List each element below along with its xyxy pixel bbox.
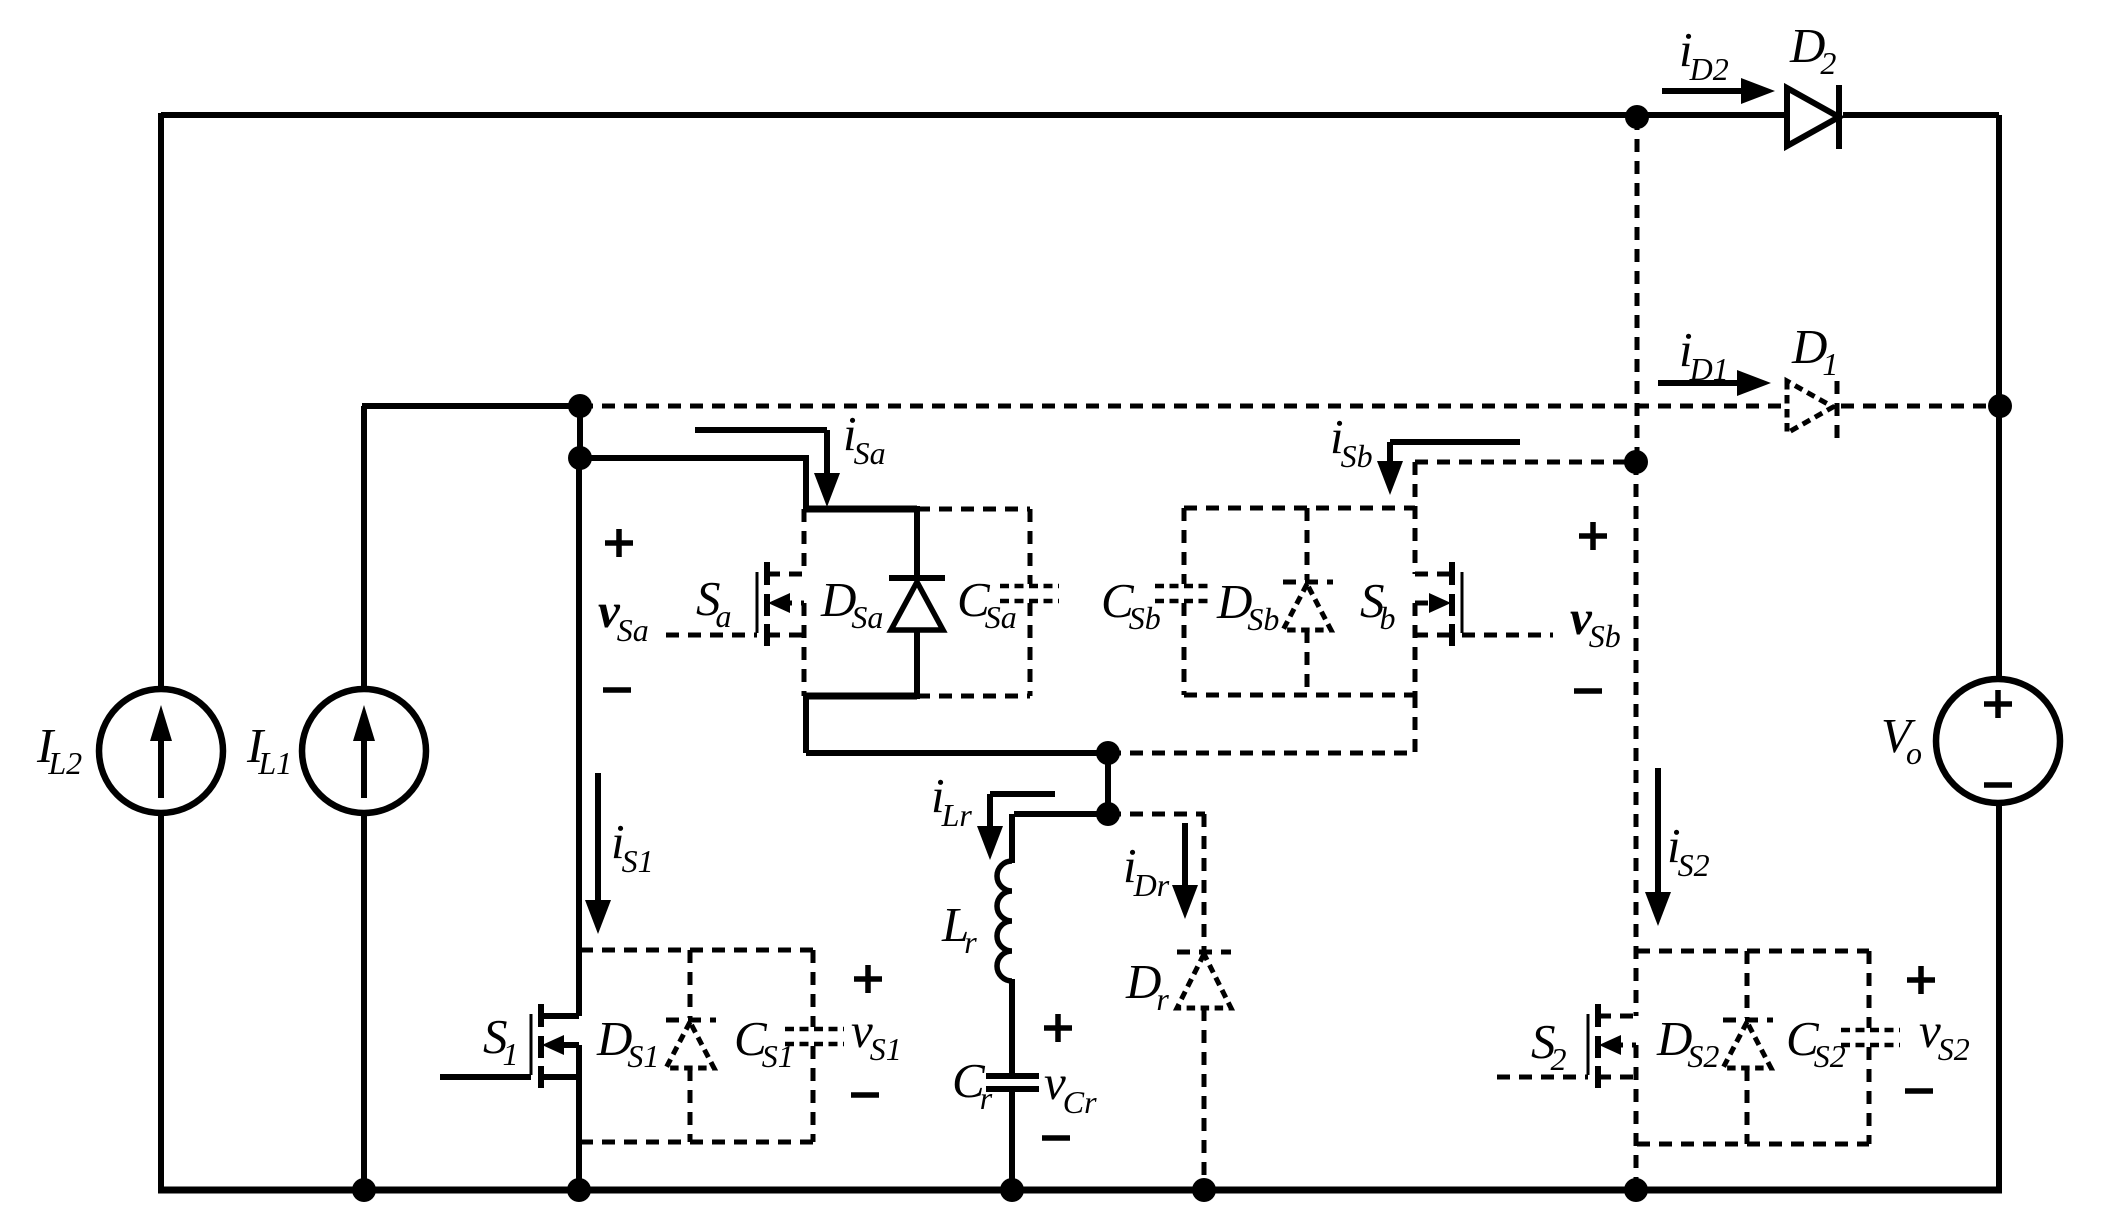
wire dashed D1 net [580,404,2000,409]
label v_S2 [1919,1003,1970,1067]
svg-text:CS1: CS1 [734,1011,794,1074]
diode D1 (dashed) [1787,381,1837,439]
voltage source V_o [1936,679,2060,803]
svg-text:Sa: Sa [696,571,732,634]
svg-text:iS2: iS2 [1667,818,1710,883]
label v_S2 plus [1907,966,1935,994]
diode D_Sa [889,506,945,699]
current source I_L1 [302,689,426,813]
svg-text:Sb: Sb [1360,573,1396,636]
node I_L1 bottom [352,1178,376,1202]
wire S1 drain [576,458,582,1016]
wire bottom rail [158,1187,2002,1194]
label I_L1 [246,718,292,781]
capacitor C_S1 [785,1029,844,1044]
inductor L_r [997,861,1012,1076]
current arrow i_D1 [1658,370,1771,396]
svg-text:CSa: CSa [957,572,1017,635]
svg-text:IL1: IL1 [246,718,292,781]
capacitor C_r [986,1076,1039,1190]
svg-text:iD2: iD2 [1679,22,1729,87]
node junction left lower [568,446,592,470]
label C_S1 [734,1011,794,1074]
label i_D2 [1679,22,1729,87]
transistor S1 (mosfet) [440,1004,579,1190]
node C_r bottom [1000,1178,1024,1202]
svg-text:DSb: DSb [1216,574,1279,637]
current arrow i_Sb [1377,442,1520,495]
current arrow i_Sa [695,430,840,507]
label D1 [1791,319,1838,382]
node S_b/S2 bus junction [1624,450,1648,474]
capacitor C_Sb box [1155,508,1415,695]
current arrow i_Lr [977,794,1055,860]
node A upper [1096,741,1120,765]
label i_Sa [843,406,886,471]
label D_S1 [596,1011,659,1074]
current source I_L2 [99,689,223,813]
label v_Cr [1044,1055,1097,1120]
label V_o [1881,708,1922,771]
label S_b [1360,573,1396,636]
node on top rail [1625,105,1649,129]
wire dashed bus from top node [1635,117,1640,462]
svg-text:DS1: DS1 [596,1011,659,1074]
label i_S2 [1667,818,1710,883]
label D_r [1125,954,1169,1017]
label v_S1 plus [854,965,882,993]
svg-text:Lr: Lr [941,897,977,960]
label I_L2 [36,718,82,781]
diode D2 [1787,85,1839,149]
node D_r bottom [1192,1178,1216,1202]
wire left rail (into I_L2) [158,113,164,1190]
svg-text:CSb: CSb [1101,573,1161,636]
label C_Sa [957,572,1017,635]
svg-text:iSb: iSb [1330,409,1373,474]
transistor S_a (switch, dashed) [666,509,804,696]
label S_a [696,571,732,634]
current arrow i_S2 [1645,768,1671,926]
label v_Sa [598,583,649,648]
svg-text:iLr: iLr [931,768,972,833]
wire S_b bottom link [1108,695,1415,753]
label i_Lr [931,768,972,833]
label D_S2 [1656,1011,1719,1074]
node S2 bottom [1624,1178,1648,1202]
svg-text:iSa: iSa [843,406,886,471]
label v_S1 [851,1003,902,1067]
diode D_Sb (dashed) [1283,508,1333,695]
label S2 [1531,1014,1567,1077]
wire S_a top rail [803,506,917,513]
svg-text:Dr: Dr [1125,954,1169,1017]
wire S_a left drop [806,693,1108,753]
wire S_a feed [580,455,806,509]
svg-text:vS2: vS2 [1919,1003,1970,1067]
diode D_S2 (dashed) [1723,951,1773,1144]
svg-text:iS1: iS1 [611,814,654,879]
node junction left upper [568,394,592,418]
current arrow i_D2 [1662,78,1775,104]
svg-text:IL2: IL2 [36,718,82,781]
svg-text:vSa: vSa [598,583,649,648]
wire node A link [1105,753,1111,814]
svg-text:vCr: vCr [1044,1055,1097,1120]
wire S2 drain (dashed) [1634,462,1639,1016]
label v_Sb [1570,590,1621,654]
snubber box S1 [580,950,813,1142]
wire top rail [161,112,1999,118]
label C_r [952,1053,993,1116]
label D_Sb [1216,574,1279,637]
capacitor C_Sa box [917,509,1059,696]
transistor S_b (switch, dashed) [1415,562,1553,646]
svg-text:CS2: CS2 [1786,1011,1846,1074]
diode D_r (dashed) [1177,952,1231,1190]
label D_Sa [820,572,883,635]
label S1 [483,1009,519,1072]
wire right rail (into Vo) [1996,115,2002,1187]
wire D_r feed [1108,814,1205,952]
label i_D1 [1679,322,1729,387]
current arrow i_Dr [1172,823,1198,919]
label v_Sa plus [605,529,633,557]
svg-text:iD1: iD1 [1679,322,1729,387]
label v_S2 minus [1905,1088,1933,1094]
node A lower [1096,802,1120,826]
wire S_a bottom rail [803,693,917,700]
svg-text:DS2: DS2 [1656,1011,1719,1074]
label v_Cr plus [1044,1014,1072,1042]
svg-text:Vo: Vo [1881,708,1922,771]
label i_Dr [1123,838,1170,903]
svg-text:S1: S1 [483,1009,519,1072]
svg-text:iDr: iDr [1123,838,1170,903]
label C_S2 [1786,1011,1846,1074]
node S1 bottom [567,1178,591,1202]
svg-text:DSa: DSa [820,572,883,635]
svg-text:D1: D1 [1791,319,1838,382]
node junction right of D1 [1988,394,2012,418]
label i_Sb [1330,409,1373,474]
capacitor C_S2 [1841,1030,1900,1045]
label C_Sb [1101,573,1161,636]
label i_S1 [611,814,654,879]
current arrow i_S1 [585,773,611,934]
diode D_S1 (dashed) [666,950,716,1142]
wire S_b feed [1415,462,1636,695]
svg-text:D2: D2 [1789,18,1836,81]
svg-text:vS1: vS1 [851,1003,902,1067]
label v_Cr minus [1042,1135,1070,1141]
svg-text:S2: S2 [1531,1014,1567,1077]
wire node link [577,406,583,458]
label v_Sb minus [1574,688,1602,694]
wire L_r feed [1012,814,1108,863]
label v_S1 minus [851,1092,879,1098]
svg-text:vSb: vSb [1570,590,1621,654]
svg-text:Cr: Cr [952,1053,993,1116]
label v_Sb plus [1579,522,1607,550]
label L_r [941,897,977,960]
transistor S2 (mosfet, dashed) [1497,1004,1636,1190]
snubber box S2 [1637,951,1869,1144]
wire I_L1 branch [362,406,580,1190]
label D2 [1789,18,1836,81]
label v_Sa minus [603,687,631,693]
